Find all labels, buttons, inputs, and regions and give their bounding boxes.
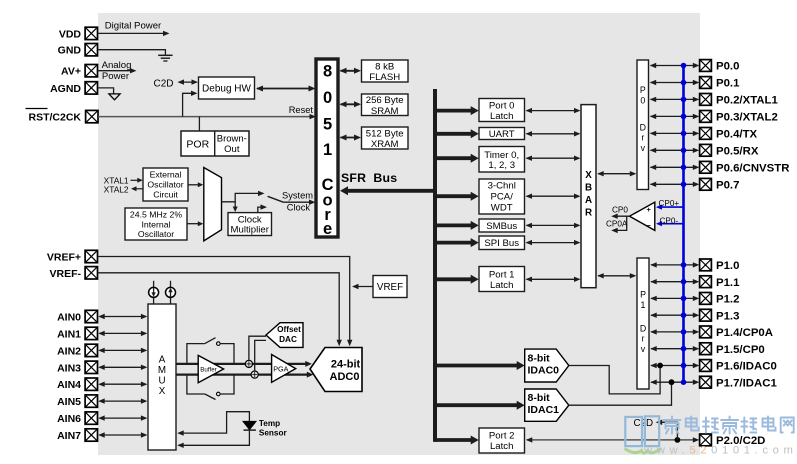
block UART [479,128,525,140]
svg-text:AGND: AGND [50,83,81,95]
svg-text:AIN4: AIN4 [57,379,81,391]
junction port pin (blue) [681,279,687,285]
svg-text:Brown-: Brown- [217,134,247,145]
wire AIN3 to AMUX [98,365,147,370]
wire GND to ground [98,50,166,55]
buffer amp [198,355,223,382]
junction port pin (blue) [681,312,687,318]
svg-text:P: P [640,85,646,95]
clock mux [204,168,222,241]
wire P0 Drv to pin P0.5/RX [650,148,700,153]
pin P1.2 [700,293,740,306]
svg-text:www.520101.com: www.520101.com [643,445,797,457]
wire temp sensor bottom path [177,430,249,448]
wire P1 Drv to pin P1.1 [650,279,699,284]
wire P0 Drv to pin P0.0 [650,63,700,68]
junction port pin (blue) [681,114,687,120]
pin AIN6 [57,412,97,425]
svg-text:VREF-: VREF- [50,268,82,280]
svg-text:256 Byte: 256 Byte [366,95,404,106]
wire offset DAC to - node [255,340,266,371]
wire VDD digital power [98,21,170,37]
svg-text:Buffer: Buffer [200,366,216,373]
svg-text:VREF+: VREF+ [47,252,81,264]
pin P1.0 [700,259,740,272]
wire AIN2 to AMUX [98,348,147,353]
svg-text:v: v [641,344,646,354]
wire Port 2 Latch to pin P2.0 [526,437,700,442]
wire AV+ analog power [98,60,137,82]
svg-text:Digital Power: Digital Power [105,21,162,32]
svg-text:Power: Power [102,71,130,82]
pin AIN2 [57,344,97,357]
block 3-Chnl PCA/ WDT [479,179,525,214]
analog ground symbol [109,94,120,100]
pin AV+ [61,65,97,78]
svg-text:SPI Bus: SPI Bus [484,238,519,249]
wire SFR bus branch to 8-bit IDAC1 [435,401,525,410]
current source (down) [149,281,159,304]
wire P1 Drv to pin P1.0 [650,262,699,267]
wire SFR bus branch to Port 2 Latch [435,436,479,445]
wire mux output down to clock multiplier [233,202,238,212]
wire SFR bus branch to Timer 0 1 2 3 [435,154,479,163]
watermark text (stylized glyph strokes) [664,417,794,434]
svg-text:PCA/: PCA/ [490,192,513,203]
svg-text:System: System [282,191,313,201]
pin P0.0 [700,60,740,73]
svg-text:1, 2, 3: 1, 2, 3 [488,160,515,171]
svg-text:UART: UART [489,129,515,140]
label Temp Sensor [259,419,288,437]
block XBAR [581,105,596,288]
junction port pin (blue) [681,148,687,154]
svg-text:SMBus: SMBus [486,221,517,232]
block Port 2 Latch [479,428,525,453]
junction port pin (blue) [681,329,687,335]
svg-text:P1.1: P1.1 [716,277,740,289]
svg-text:Out: Out [224,144,240,155]
wire XBAR to P0 Drv [597,171,636,176]
comparator CP0 [630,202,655,230]
wire CP0+ input (blue) [656,205,684,210]
wire IDAC1 to P1.7 [569,382,672,405]
pin GND [58,44,98,57]
wire AGND [98,88,114,94]
wire core to 8kB FLASH [340,68,362,74]
svg-text:IDAC1: IDAC1 [528,404,560,416]
block 256 Byte SRAM [362,94,409,117]
pin AIN3 [57,361,97,374]
svg-text:AIN6: AIN6 [57,413,81,425]
svg-text:Circuit: Circuit [153,190,178,200]
svg-text:C2D: C2D [634,418,654,429]
pin P0.4/TX [700,128,758,141]
svg-text:8 kB: 8 kB [375,62,394,73]
wire VREF+ to ADC0 [98,257,353,347]
pin P2.0/C2D [700,434,766,447]
svg-text:5: 5 [323,116,332,134]
junction port pin (blue) [681,182,687,188]
svg-text:−: − [647,221,652,230]
pin P1.7/IDAC1 [700,376,778,389]
svg-text:+: + [647,205,652,214]
temp sensor diode [243,421,256,430]
junction port pin (blue) [681,296,687,302]
svg-text:1: 1 [641,300,646,310]
svg-text:Timer 0,: Timer 0, [484,150,519,161]
wire POR to reset line [198,117,200,131]
svg-text:D: D [640,324,646,334]
wire SFR bus branch to 3-Chnl PCA WDT [435,192,479,201]
wire XBAR to P1 Drv [597,273,636,278]
svg-text:24-bit: 24-bit [331,358,361,370]
wire CP0A output [611,216,627,233]
svg-text:Latch: Latch [490,111,513,122]
pin VDD [59,27,98,40]
wire VREF- to ADC0 [98,273,342,347]
wire Port 0 Latch to XBAR [526,108,581,113]
svg-text:A: A [585,195,592,206]
system clock switch [268,196,284,202]
wire temp sensor top path [177,412,249,436]
block P0 Drv [637,60,649,190]
svg-text:r: r [641,133,644,143]
pin P0.7 [700,178,740,191]
block 512 Byte XRAM [362,127,409,150]
wire P1 Drv to pin P1.6/IDAC0 [650,363,699,368]
svg-text:P0.4/TX: P0.4/TX [716,129,758,141]
svg-text:P1.2: P1.2 [716,294,739,306]
pin P0.3/XTAL2 [700,111,778,124]
svg-text:XTAL2: XTAL2 [104,184,129,194]
wire IDAC0 to P1.6 [569,366,660,394]
svg-text:1: 1 [323,141,332,159]
pin AIN0 [57,310,97,323]
svg-text:R: R [585,208,592,219]
block Debug HW [199,77,255,99]
watermark book icon [625,416,661,453]
PGA amp [272,355,296,383]
svg-text:P0.3/XTAL2: P0.3/XTAL2 [716,112,778,124]
svg-text:v: v [641,143,646,153]
junction port pin (blue) [681,97,687,103]
wire Port 1 Latch to XBAR [526,277,581,282]
svg-text:Port 2: Port 2 [489,431,515,442]
wire SFR bus branch to 8-bit IDAC0 [435,361,525,370]
svg-text:Reset: Reset [289,105,314,115]
block 8-bit IDAC0 [525,349,569,382]
pin AIN4 [57,378,97,391]
wire XTAL2 out [131,186,143,191]
wire SFR bus vertical [433,89,437,442]
svg-text:Latch: Latch [490,441,513,452]
svg-text:POR: POR [186,139,209,151]
block 24-bit ADC0 [310,348,362,392]
svg-text:CP0: CP0 [612,206,628,215]
wire offset DAC to + node [249,336,266,360]
block VREF [373,276,407,298]
svg-text:r: r [642,334,645,344]
svg-text:FLASH: FLASH [369,72,400,83]
wire VREF box output [352,284,373,289]
block AMUX [148,304,176,450]
svg-text:512 Byte: 512 Byte [366,129,404,140]
wire core to 512 Byte XRAM [340,135,362,141]
svg-text:Port 1: Port 1 [489,270,515,281]
svg-text:AIN0: AIN0 [57,312,81,324]
label C2D (debug) [153,78,173,89]
junction port pin (blue) [681,262,687,268]
block 8051 Core [316,59,338,238]
wire AIN6 to AMUX [98,415,147,420]
wire 3-Chnl PCA/ WDT to XBAR [526,194,581,199]
label C2D (port) [634,418,654,429]
svg-text:8-bit: 8-bit [528,353,551,365]
block Clock Multiplier [228,213,272,236]
junction C2D/P2.0 [675,437,681,443]
wire CP0 output [611,214,629,219]
block Port 1 Latch [479,267,525,292]
wire P0 Drv to pin P0.6/CNVSTR [650,165,700,170]
junction port pin (blue) [681,165,687,171]
svg-text:CP0-: CP0- [660,216,679,225]
svg-text:VDD: VDD [59,28,82,40]
block External Oscillator Circuit [143,168,188,201]
wire SFR bus branch to SMBus [435,221,479,230]
svg-text:0: 0 [640,96,645,106]
svg-text:M: M [158,365,166,376]
block Timer 0, 1, 2, 3 [479,147,525,173]
label SFR Bus [341,171,397,185]
svg-text:P0.7: P0.7 [716,180,739,192]
svg-text:X: X [585,170,592,181]
current source (up) [166,281,176,304]
svg-text:Debug HW: Debug HW [202,84,251,95]
block 8kB FLASH [362,60,409,83]
wire AIN1 to AMUX [98,331,147,336]
wire AIN5 to AMUX [98,398,147,403]
wire AIN0 to AMUX [98,314,147,319]
bypass switch lower [187,375,234,400]
block SMBus [479,219,525,232]
svg-text:Temp: Temp [259,419,280,428]
svg-text:Multiplier: Multiplier [231,225,270,236]
wire P1 Drv to pin P1.3 [650,313,699,318]
junction port pin (blue) [681,80,687,86]
label CP0+ [659,199,680,208]
junction IDAC1/P1.7 [669,379,675,385]
svg-text:AV+: AV+ [61,66,81,78]
svg-text:24.5 MHz 2%: 24.5 MHz 2% [130,210,182,220]
svg-text:X: X [159,386,166,397]
wire SFR bus branch to Port 0 Latch [435,106,479,115]
wire RST/C2CK to core (Reset) [98,114,316,119]
block P1 Drv [637,258,649,389]
wire P0 Drv to pin P0.4/TX [650,131,700,136]
pin P0.5/RX [700,144,759,157]
svg-text:VREF: VREF [377,282,403,293]
svg-text:P0.5/RX: P0.5/RX [716,146,759,158]
junction IDAC0/P1.6 [657,363,663,369]
wire C2D branch [656,420,678,440]
label Reset [289,105,314,115]
wire UART to XBAR [526,131,581,136]
svg-text:P0.2/XTAL1: P0.2/XTAL1 [716,95,778,107]
svg-text:External: External [150,170,182,180]
pin P0.6/CNVSTR [700,161,790,174]
svg-text:P1.7/IDAC1: P1.7/IDAC1 [716,377,777,389]
svg-text:GND: GND [58,45,82,57]
svg-text:P0.0: P0.0 [716,61,739,73]
svg-text:SRAM: SRAM [371,106,399,117]
pin P1.5/CP0 [700,343,765,356]
label CP0A [606,219,628,228]
wire clock multiplier to switch [258,204,267,212]
wire AIN7 to AMUX [98,432,147,437]
pin P1.4/CP0A [700,326,773,339]
svg-text:RST/C2CK: RST/C2CK [28,112,81,124]
wire signal - line [176,372,313,378]
wire C2D to Debug HW [178,79,199,84]
summing node - [251,371,258,378]
wire SFR bus branch to Port 1 Latch [435,275,479,284]
pin VREF+ [47,250,98,263]
ground symbol (digital) [158,55,172,61]
wire signal + line [176,361,312,367]
svg-text:P0.1: P0.1 [716,78,740,90]
wire P1 Drv to pin P1.5/CP0 [650,346,699,351]
svg-text:P1.0: P1.0 [716,260,739,272]
svg-text:AIN3: AIN3 [57,362,81,374]
svg-text:P1.3: P1.3 [716,310,739,322]
svg-text:U: U [158,376,165,387]
label XTAL2 [104,184,129,194]
wire P0 Drv to pin P0.1 [650,80,700,85]
bypass switch upper [187,338,234,364]
wire P0 Drv to pin P0.7 [650,182,700,187]
svg-text:Oscillator: Oscillator [138,229,174,239]
wire CP0- input (blue) [656,221,684,226]
junction port pin (blue) [681,63,687,69]
wire ext osc to mux [188,182,203,187]
junction port pin (blue) [681,379,687,385]
wire P1 Drv to pin P1.4/CP0A [650,329,699,334]
watermark url [643,445,797,457]
pin P1.6/IDAC0 [700,360,777,373]
svg-text:XRAM: XRAM [371,139,399,150]
svg-text:P1.4/CP0A: P1.4/CP0A [716,327,773,339]
svg-text:ADC0: ADC0 [330,371,360,383]
wire P0 Drv to pin P0.3/XTAL2 [650,114,700,119]
wire int osc to mux [187,221,203,226]
svg-text:e: e [323,220,332,238]
pin AIN7 [57,429,97,442]
svg-text:8-bit: 8-bit [528,392,551,404]
wire SPI Bus to XBAR [526,240,581,245]
wire XTAL1 in [131,178,143,183]
svg-text:IDAC0: IDAC0 [528,365,560,377]
block Port 0 Latch [479,99,525,123]
pin P0.2/XTAL1 [700,94,779,107]
svg-text:CP0A: CP0A [606,219,628,228]
svg-text:Latch: Latch [490,280,513,291]
block POR / Brown-Out [181,131,249,156]
svg-text:WDT: WDT [491,203,513,214]
wire P1 Drv to pin P1.2 [650,296,699,301]
junction port pin (blue) [681,346,687,352]
block 24.5 MHz 2% Internal Oscillator [125,208,187,240]
svg-text:P1.5/CP0: P1.5/CP0 [716,344,765,356]
label CP0 [612,206,628,215]
wire Debug HW to core [256,86,316,92]
label System Clock [282,191,313,213]
pin AGND [50,82,97,95]
wire P0 Drv to pin P0.2/XTAL1 [650,97,700,102]
junction port pin (blue) [681,131,687,137]
svg-text:0: 0 [323,89,332,107]
svg-text:Sensor: Sensor [259,429,288,438]
wire SFR bus horizontal [340,186,437,195]
block 8-bit IDAC1 [525,389,569,421]
svg-text:Internal: Internal [142,220,171,230]
pin P0.1 [700,77,740,90]
pin VREF- [50,267,98,280]
block SPI Bus [479,236,525,250]
label CP0- [660,216,679,225]
pin P1.3 [700,309,740,322]
svg-text:AIN5: AIN5 [57,396,81,408]
port pin bus (blue) [682,66,685,383]
svg-text:D: D [640,123,646,133]
svg-text:Oscillator: Oscillator [147,180,183,190]
wire system clock to core [283,200,315,205]
wire SFR bus branch to UART [435,129,479,138]
svg-text:Analog: Analog [102,60,132,71]
wire SMBus to XBAR [526,223,581,228]
svg-text:P: P [640,290,646,300]
svg-text:AIN2: AIN2 [57,345,81,357]
wire AIN4 to AMUX [98,382,147,387]
wire SFR bus branch to SPI Bus [435,238,479,247]
svg-text:Port 0: Port 0 [489,101,515,112]
svg-text:P0.6/CNVSTR: P0.6/CNVSTR [716,163,789,175]
pin P1.1 [700,276,740,289]
wire reset branch to Debug HW [183,91,198,117]
svg-text:Clock: Clock [287,203,311,213]
pin AIN1 [57,327,97,340]
svg-text:P1.6/IDAC0: P1.6/IDAC0 [716,361,777,373]
summing node + [245,360,252,367]
pin AIN5 [57,395,97,408]
svg-text:Offset: Offset [277,325,301,334]
junction port pin (blue) [681,363,687,369]
wire mux output to switch [222,191,265,202]
svg-text:A: A [159,355,166,366]
svg-text:AIN1: AIN1 [57,328,81,340]
svg-text:8: 8 [323,63,332,81]
wire Timer 0, 1, 2, 3 to XBAR [526,156,581,161]
wire core to 256 Byte SRAM [340,101,362,107]
svg-text:C2D: C2D [153,78,173,89]
wire P1 Drv to pin P1.7/IDAC1 [650,380,699,385]
svg-text:CP0+: CP0+ [659,199,680,208]
svg-text:PGA: PGA [273,365,288,374]
svg-text:SFR Bus: SFR Bus [341,171,397,185]
block Offset DAC [266,323,303,348]
svg-text:3-Chnl: 3-Chnl [488,181,516,192]
svg-text:B: B [585,183,592,194]
